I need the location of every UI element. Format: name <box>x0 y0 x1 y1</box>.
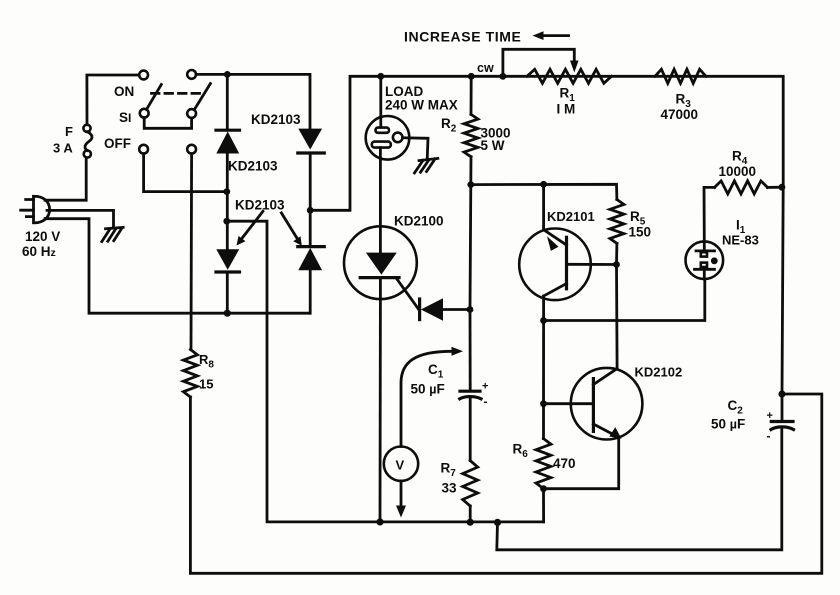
node R2 top <box>468 73 475 80</box>
resistor R2 <box>464 114 478 156</box>
svg-text:240 W MAX: 240 W MAX <box>385 98 458 113</box>
wire top rail <box>196 74 310 128</box>
wire R7 bottom <box>469 506 472 522</box>
wire KD2101 collector down <box>542 296 545 439</box>
node OFF wire junction <box>223 188 230 195</box>
svg-text:-: - <box>484 395 488 409</box>
svg-text:V: V <box>396 458 405 473</box>
label F 3A <box>53 124 73 156</box>
svg-text:33: 33 <box>442 481 458 496</box>
wire plug middle lead to chassis ground <box>47 210 114 228</box>
svg-text:KD2103: KD2103 <box>228 159 278 174</box>
svg-text:R7: R7 <box>441 461 457 480</box>
svg-text:R6: R6 <box>513 442 529 461</box>
svg-text:I M: I M <box>557 102 576 117</box>
svg-text:INCREASE TIME: INCREASE TIME <box>404 29 521 45</box>
label R6 470 <box>513 442 576 472</box>
gate diode (points left) <box>420 298 443 320</box>
wire SCR cathode down to lower rail <box>379 299 382 522</box>
node DC tap junction <box>223 218 230 225</box>
wire base node down to KD2102 collector <box>615 265 618 369</box>
capacitor C2 <box>767 410 794 443</box>
label LOAD 240 W MAX <box>385 84 458 113</box>
wire C2 top stub <box>781 394 784 420</box>
svg-text:F: F <box>65 124 73 139</box>
svg-text:60 Hz: 60 Hz <box>22 244 56 259</box>
resistor R1 potentiometer <box>527 69 612 83</box>
svg-text:10000: 10000 <box>719 164 757 179</box>
capacitor C1 <box>460 381 489 409</box>
svg-text:R2: R2 <box>441 116 457 135</box>
label R8 15 <box>199 352 214 392</box>
transistor KD2101 <box>519 228 616 300</box>
node load top <box>377 73 384 80</box>
wire left leg middle <box>226 154 229 250</box>
svg-text:cw: cw <box>477 61 494 75</box>
resistor R8 <box>183 350 197 398</box>
svg-text:15: 15 <box>199 377 213 392</box>
wire divider mid <box>469 185 473 310</box>
svg-text:SI: SI <box>119 110 131 125</box>
label 120V 60Hz <box>22 229 60 259</box>
wire plug bottom lead down to AC rail <box>45 219 310 314</box>
arrow to lower-left diode <box>237 211 263 245</box>
svg-text:5 W: 5 W <box>481 138 505 153</box>
resistor R6 <box>536 439 551 489</box>
svg-text:+: + <box>482 381 488 393</box>
wire load drop <box>379 76 382 119</box>
svg-text:KD2103: KD2103 <box>235 198 285 213</box>
wire neon top to R4 <box>704 187 715 241</box>
label R2 3000 5W <box>441 116 511 153</box>
voltmeter bottom probe arrow <box>396 481 406 518</box>
node R7 bottom on rail <box>467 519 474 526</box>
diode KD2103 upper-right (points down) <box>298 129 325 153</box>
diode KD2103 lower-left (points down) <box>216 249 240 272</box>
resistor R7 <box>463 461 478 506</box>
resistor R5 <box>610 200 624 244</box>
wire bridge mid-left to lower rail <box>227 221 544 522</box>
wire emitter drop <box>542 184 545 229</box>
label I1 NE-83 <box>722 218 759 248</box>
svg-text:470: 470 <box>553 456 576 471</box>
label R3 47000 <box>661 92 699 123</box>
node KD2101 emitter <box>540 181 547 188</box>
neon lamp I1 NE-83 <box>686 241 724 279</box>
wire right leg middle <box>309 153 312 247</box>
increase time arrow <box>533 31 569 40</box>
svg-text:47000: 47000 <box>661 107 699 122</box>
node C2 top <box>778 390 785 397</box>
wire R2 drop <box>470 76 473 114</box>
svg-text:150: 150 <box>629 225 652 240</box>
wire R5 bottom to base node <box>615 243 618 264</box>
label C1 50uF <box>411 362 445 397</box>
SCR KD2100 <box>344 226 417 299</box>
diode KD2103 upper-left (points up) <box>216 130 240 153</box>
node right leg mid tap <box>307 207 314 214</box>
wire emitter rail <box>471 184 617 199</box>
wire right rail <box>782 187 783 394</box>
voltmeter V <box>384 447 418 481</box>
node R4 right <box>779 184 786 191</box>
node R2 bottom <box>467 181 474 188</box>
wire R2 bottom <box>469 157 472 185</box>
wire top rail junction down to diode <box>226 74 229 130</box>
load socket outlet <box>366 116 410 160</box>
pot wiper loop <box>503 49 579 76</box>
resistor R4 <box>715 181 768 194</box>
wire OFF left contact to bridge <box>144 154 227 192</box>
wire fuse to switch <box>87 75 139 125</box>
svg-text:+: + <box>767 410 773 422</box>
svg-text:3 A: 3 A <box>53 141 73 156</box>
svg-text:ON: ON <box>114 84 134 99</box>
chassis ground (plug) <box>102 227 123 241</box>
arrow to lower-right diode <box>281 213 301 246</box>
switch S1 <box>139 70 210 154</box>
svg-text:50 µF: 50 µF <box>711 417 745 432</box>
svg-text:OFF: OFF <box>104 136 131 151</box>
wire R8 to outer bottom rail <box>190 394 821 573</box>
wire C1 to R7 <box>469 399 472 461</box>
voltmeter top probe arrow <box>401 347 463 447</box>
wire gate diode to divider <box>443 308 470 311</box>
wire switch right to R8 <box>190 154 193 350</box>
node R6 bottom <box>540 485 547 492</box>
node KD2102 base <box>540 400 547 407</box>
wire KD2102 emitter to R6 bottom <box>544 437 619 488</box>
wire bridge mid-right riser to top right rail <box>310 76 783 210</box>
node AC rail / left leg <box>224 310 231 317</box>
wire R4 to right rail <box>768 186 784 189</box>
node neon return <box>540 317 547 324</box>
wire right leg bottom <box>309 270 312 313</box>
wire neon return <box>544 279 705 321</box>
node SCR cathode on rail <box>376 518 383 525</box>
svg-text:C2: C2 <box>728 398 744 417</box>
AC plug <box>21 196 50 223</box>
labels ON S1 OFF <box>104 84 134 151</box>
wire C2 return jog <box>497 429 782 550</box>
label R5 150 <box>629 209 652 240</box>
transistor KD2102 <box>544 368 643 440</box>
wire load ground lead <box>403 138 429 160</box>
svg-text:R8: R8 <box>199 352 214 371</box>
node pot wiper tie <box>500 73 507 80</box>
fuse F 3A <box>83 125 92 158</box>
label C2 50uF <box>711 398 745 432</box>
svg-text:KD2100: KD2100 <box>394 214 444 229</box>
svg-text:-: - <box>767 429 771 443</box>
label R4 10000 <box>719 149 757 180</box>
wire R6 bottom to lower rail end <box>542 489 545 522</box>
node gate junction <box>467 306 474 313</box>
node top rail / left bridge leg <box>224 71 231 78</box>
resistor R3 <box>655 69 706 83</box>
wire gate node to C1 <box>469 310 472 391</box>
node C2 return on rail <box>494 519 501 526</box>
SCR gate lead <box>397 279 419 310</box>
svg-text:C1: C1 <box>428 362 444 381</box>
svg-text:NE-83: NE-83 <box>722 233 759 248</box>
label R7 33 <box>441 461 458 496</box>
label R1 1M <box>557 86 576 117</box>
wire load to SCR <box>379 160 382 227</box>
diode KD2103 lower-right (points up) <box>298 247 325 271</box>
wire left leg bottom <box>226 272 229 313</box>
wire plug top lead to fuse <box>45 158 86 200</box>
svg-text:KD2103: KD2103 <box>251 112 301 127</box>
svg-text:120 V: 120 V <box>25 229 60 244</box>
node KD2101 base <box>613 261 620 268</box>
svg-text:50 µF: 50 µF <box>411 382 445 397</box>
chassis ground (load) <box>415 158 438 173</box>
svg-text:KD2102: KD2102 <box>635 365 683 380</box>
svg-text:KD2101: KD2101 <box>547 209 595 224</box>
